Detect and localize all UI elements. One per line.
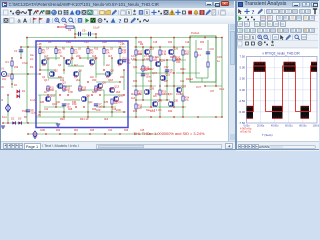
label R1 bbox=[6, 60, 10, 64]
label R24 bbox=[185, 97, 190, 102]
wire vert V13 bbox=[103, 47, 105, 66]
label R21 bbox=[185, 51, 190, 56]
svg-text:Q34: Q34 bbox=[168, 94, 173, 96]
transient bottom bar bbox=[236, 141, 319, 151]
label R10 bbox=[122, 50, 127, 55]
svg-text:R18: R18 bbox=[46, 89, 51, 91]
svg-text:C20: C20 bbox=[148, 81, 153, 83]
toolbar row 1 bbox=[1, 8, 234, 17]
svg-text:1u: 1u bbox=[217, 59, 220, 63]
svg-text:C18: C18 bbox=[153, 42, 158, 44]
svg-text:+35: +35 bbox=[37, 42, 42, 46]
label R7 bbox=[74, 50, 79, 55]
ground GND1 bbox=[56, 124, 60, 126]
svg-text:Q21: Q21 bbox=[56, 102, 61, 104]
svg-text:Q6: Q6 bbox=[86, 93, 90, 97]
resistor R18 bbox=[150, 56, 152, 61]
wire bottom rail VEE bbox=[36, 116, 222, 118]
label R14v bbox=[198, 54, 202, 57]
ground GND3 bbox=[33, 136, 37, 138]
wire vert V11 bbox=[87, 95, 89, 117]
wire horz H15 bbox=[38, 111, 126, 113]
svg-text:40.00u: 40.00u bbox=[271, 124, 279, 127]
svg-text:C12: C12 bbox=[94, 89, 99, 91]
resistor R2 bbox=[11, 74, 13, 79]
svg-text:D4: D4 bbox=[14, 85, 18, 87]
svg-text:Q28: Q28 bbox=[149, 86, 154, 90]
svg-text:Q10: Q10 bbox=[118, 93, 123, 97]
label Q28 bbox=[149, 86, 154, 90]
capacitor C1 bbox=[19, 50, 23, 52]
svg-text:C8: C8 bbox=[110, 49, 114, 51]
svg-text:4k7: 4k7 bbox=[131, 92, 136, 96]
wire vert VR1 bbox=[135, 37, 137, 117]
diode D2 bbox=[12, 121, 15, 124]
resistor R12 bbox=[63, 86, 65, 91]
toolbar row 2 bbox=[1, 16, 234, 25]
wire vert V3 bbox=[47, 58, 49, 78]
resistor R3 (selected) bbox=[66, 26, 74, 28]
svg-text:T (Secs): T (Secs) bbox=[262, 133, 273, 137]
label Q8 bbox=[102, 80, 106, 84]
wire vert V1 bbox=[39, 47, 41, 70]
resistor R1 bbox=[11, 61, 13, 66]
wire vert VR4 bbox=[159, 47, 161, 117]
svg-text:2k0: 2k0 bbox=[116, 90, 121, 94]
svg-text:Q12: Q12 bbox=[50, 93, 55, 97]
svg-text:7.50: 7.50 bbox=[240, 55, 246, 59]
label D2 D3 bbox=[11, 117, 22, 121]
svg-text:R44: R44 bbox=[56, 130, 61, 132]
wire horz H13 bbox=[44, 106, 64, 108]
ringing speckle bbox=[247, 63, 316, 117]
wire red selected bbox=[58, 26, 66, 28]
wire vert V9 bbox=[79, 70, 81, 90]
capacitor C7 bbox=[94, 104, 98, 106]
wire vert V16 bbox=[111, 104, 113, 117]
wire horz H14 bbox=[96, 106, 116, 108]
label Q3 bbox=[62, 80, 66, 84]
svg-text:R46: R46 bbox=[124, 130, 129, 132]
svg-text:100.00u: 100.00u bbox=[313, 124, 319, 127]
svg-text:C16: C16 bbox=[217, 55, 222, 59]
wire left loop edge bbox=[26, 38, 28, 124]
transistor Q6 bbox=[81, 96, 86, 101]
label Q2 bbox=[54, 68, 58, 72]
svg-text:?: ? bbox=[118, 18, 121, 23]
wire horz HR4 bbox=[176, 72, 200, 74]
svg-text:2k2: 2k2 bbox=[106, 65, 110, 67]
capacitor C3 bbox=[122, 60, 126, 62]
svg-text:R36: R36 bbox=[133, 81, 138, 83]
wire R1 branch bbox=[11, 58, 13, 88]
capacitor C15 bbox=[206, 52, 210, 54]
label Q26 bbox=[173, 46, 178, 50]
label Q30 bbox=[173, 98, 178, 102]
transistor Q29 bbox=[152, 101, 157, 106]
svg-text:Q9: Q9 bbox=[110, 68, 114, 72]
label C6 bbox=[31, 110, 37, 115]
label R20 bbox=[176, 57, 181, 62]
svg-text:R14: R14 bbox=[198, 48, 203, 51]
svg-text:1n0: 1n0 bbox=[155, 57, 160, 59]
svg-text:R41 10: R41 10 bbox=[80, 117, 89, 121]
junction top branch bbox=[57, 26, 96, 38]
resistor R7 bbox=[71, 49, 73, 54]
capacitor C9 bbox=[79, 32, 81, 36]
wire vert VR7 bbox=[182, 47, 184, 117]
svg-text:22R: 22R bbox=[116, 108, 121, 112]
component value labels bbox=[1, 31, 224, 121]
svg-text:Q34: Q34 bbox=[152, 71, 157, 75]
wire vert VR5 bbox=[166, 60, 168, 100]
label R23 bbox=[162, 91, 167, 96]
resistor R16 bbox=[111, 99, 113, 104]
svg-text:120: 120 bbox=[138, 108, 143, 110]
svg-text:D3: D3 bbox=[18, 117, 22, 121]
label Q5 bbox=[78, 68, 82, 72]
svg-text:0.1uF: 0.1uF bbox=[93, 26, 100, 30]
svg-text:D2: D2 bbox=[11, 117, 15, 121]
label R12 bbox=[66, 87, 71, 92]
svg-text:Q5: Q5 bbox=[78, 68, 82, 72]
svg-text:C21: C21 bbox=[180, 81, 185, 83]
transistor Q24 bbox=[155, 61, 160, 66]
svg-text:1R0: 1R0 bbox=[153, 60, 158, 62]
svg-text:47uF: 47uF bbox=[22, 61, 28, 65]
wire horz H1 bbox=[44, 57, 60, 59]
svg-text:1.00: 1.00 bbox=[144, 57, 150, 61]
resistor R5 bbox=[39, 49, 41, 54]
label Q13 bbox=[114, 84, 119, 88]
svg-text:Q22: Q22 bbox=[88, 102, 93, 104]
transient toolbars bbox=[236, 8, 318, 50]
svg-text:Q3: Q3 bbox=[58, 65, 62, 67]
wire vert V6 bbox=[63, 58, 65, 74]
svg-text:R1: R1 bbox=[6, 60, 10, 64]
label R26 bbox=[145, 67, 150, 72]
svg-text:3k3: 3k3 bbox=[104, 117, 109, 121]
plot title bbox=[262, 52, 300, 56]
extra value labels bbox=[2, 42, 215, 132]
label R8 bbox=[90, 50, 94, 55]
transistor Q26 bbox=[168, 49, 173, 54]
svg-text:R28: R28 bbox=[68, 109, 73, 111]
svg-text:R40: R40 bbox=[168, 111, 173, 113]
transistor Q4 bbox=[65, 59, 70, 64]
svg-text:1mA: 1mA bbox=[30, 98, 36, 102]
svg-text:4u7: 4u7 bbox=[44, 54, 49, 58]
wire horz HR1 bbox=[132, 59, 150, 61]
wire I1 bbox=[7, 95, 9, 123]
svg-text:20.00u: 20.00u bbox=[257, 124, 265, 127]
svg-text:a: a bbox=[17, 18, 21, 23]
transistor Q8 bbox=[97, 83, 102, 88]
wire out stub bbox=[205, 37, 222, 86]
svg-text:IN1: IN1 bbox=[30, 67, 34, 69]
svg-text:0.22: 0.22 bbox=[162, 54, 167, 56]
svg-text:Q7: Q7 bbox=[118, 65, 122, 67]
label R22 bbox=[138, 91, 143, 96]
selection box bbox=[36, 41, 128, 128]
wire top branch bbox=[75, 27, 97, 38]
label C1 bbox=[14, 49, 18, 53]
current source I2 bbox=[33, 131, 37, 137]
svg-text:5.00: 5.00 bbox=[240, 66, 246, 70]
resistor R11 bbox=[47, 86, 49, 91]
label C8 bbox=[67, 104, 72, 109]
capacitor C4 bbox=[141, 74, 145, 76]
junction dots mid bbox=[39, 57, 124, 107]
label Q25 bbox=[165, 72, 170, 76]
capacitor C10 bbox=[89, 32, 91, 36]
svg-text:C19: C19 bbox=[185, 42, 190, 44]
wire horz HR3 bbox=[136, 72, 168, 74]
svg-text:THL THD = 1.000000% and SID =: THL THD = 1.000000% and SID = 3.24% bbox=[134, 131, 205, 136]
plot frame bbox=[247, 57, 318, 124]
junction dots left bbox=[2, 57, 150, 134]
junction dots bottom bbox=[39, 111, 222, 117]
label R16 bbox=[114, 100, 119, 105]
transistor Q9 bbox=[105, 71, 110, 76]
label Q7 bbox=[94, 56, 98, 60]
svg-text:0.1: 0.1 bbox=[198, 54, 202, 57]
wire vert V4 bbox=[55, 47, 57, 60]
svg-text:220u: 220u bbox=[150, 111, 156, 113]
label C7 bbox=[99, 104, 104, 109]
label Q9 bbox=[110, 68, 114, 72]
svg-text:C15: C15 bbox=[210, 48, 215, 51]
svg-text:0.00: 0.00 bbox=[240, 88, 246, 92]
wire vert V17 bbox=[119, 47, 121, 64]
resistor R10 bbox=[119, 49, 121, 54]
wire horz H9 bbox=[80, 89, 104, 91]
wire vert VR6 bbox=[173, 37, 175, 107]
wire horz H8 bbox=[56, 85, 72, 87]
svg-text:4k7: 4k7 bbox=[108, 54, 113, 58]
wire top rail VCC bbox=[26, 37, 222, 39]
main title bar bbox=[0, 0, 234, 9]
label Q10 bbox=[118, 93, 123, 97]
capacitor C8 bbox=[62, 104, 66, 106]
label R17 bbox=[138, 51, 143, 56]
transistor Q28 bbox=[144, 89, 149, 94]
wire horz HR5 bbox=[132, 85, 156, 87]
label R6 bbox=[58, 50, 62, 55]
resistor R14 bbox=[195, 52, 197, 57]
svg-text:1.84: 1.84 bbox=[131, 57, 137, 61]
transistor Q27 bbox=[176, 87, 181, 92]
svg-text:0R1: 0R1 bbox=[74, 130, 79, 132]
svg-text:33R: 33R bbox=[72, 102, 77, 104]
label R18 bbox=[153, 57, 158, 62]
wire horz H5 bbox=[96, 73, 112, 75]
svg-text:R31: R31 bbox=[138, 42, 143, 44]
wire horz HR2 bbox=[160, 59, 186, 61]
label R5 bbox=[42, 50, 46, 55]
wire x21 bbox=[20, 47, 22, 58]
wire left low rail bbox=[3, 122, 58, 124]
svg-text:C14: C14 bbox=[44, 109, 49, 111]
capacitor C6 bbox=[26, 110, 30, 112]
transistor Q5 bbox=[73, 71, 78, 76]
svg-text:-2.50: -2.50 bbox=[239, 99, 246, 103]
label C5 bbox=[170, 70, 175, 75]
resistor R22 bbox=[135, 90, 137, 95]
svg-text:0.1: 0.1 bbox=[30, 57, 34, 61]
svg-text:0R22: 0R22 bbox=[180, 69, 186, 71]
svg-text:80.00u: 80.00u bbox=[299, 124, 307, 127]
resistor R13 bbox=[79, 86, 81, 91]
wire horz H3 bbox=[68, 65, 84, 67]
svg-text:Q24: Q24 bbox=[160, 58, 165, 62]
resistor R20 bbox=[173, 56, 175, 61]
svg-text:Q5: Q5 bbox=[90, 65, 94, 67]
svg-text:R29: R29 bbox=[92, 109, 97, 111]
svg-text:IN: IN bbox=[1, 85, 4, 89]
wire X1 link bbox=[196, 78, 208, 82]
wire X1 internal 1 bbox=[195, 40, 197, 78]
wire input bbox=[5, 73, 40, 75]
svg-text:MJ15: MJ15 bbox=[170, 57, 176, 59]
wire horz H4 bbox=[40, 69, 56, 71]
wire horz HR7 bbox=[136, 99, 170, 101]
svg-text:Q13: Q13 bbox=[114, 84, 119, 88]
x axis title bbox=[262, 133, 273, 137]
wire vert V8 bbox=[71, 47, 73, 66]
ground GND2 bbox=[1, 126, 5, 128]
label C15 bbox=[210, 48, 215, 51]
label R14 bbox=[198, 48, 203, 51]
svg-text:10u: 10u bbox=[30, 55, 35, 57]
svg-text:R40: R40 bbox=[60, 117, 65, 121]
transistor Q7 bbox=[89, 59, 94, 64]
svg-text:R20: R20 bbox=[110, 89, 115, 91]
junction dots rail A bbox=[20, 46, 183, 47]
x axis labels bbox=[244, 124, 320, 127]
junction dots top rail bbox=[26, 37, 222, 38]
transistor Q23 bbox=[144, 49, 149, 54]
label I1 bbox=[1, 98, 4, 102]
schematic area bbox=[1, 24, 228, 141]
label R15 bbox=[98, 87, 103, 92]
wire vert V7 bbox=[63, 104, 65, 117]
svg-text:Q23: Q23 bbox=[118, 102, 123, 104]
svg-text:C1: C1 bbox=[68, 28, 72, 32]
label C10 bbox=[82, 26, 100, 33]
svg-text:Q8: Q8 bbox=[102, 80, 106, 84]
svg-text:47k: 47k bbox=[6, 74, 11, 78]
transistor Q30 bbox=[168, 101, 173, 106]
label D1 bbox=[22, 89, 26, 93]
transistor Q1 bbox=[41, 59, 46, 64]
svg-text:10R: 10R bbox=[138, 54, 143, 56]
svg-text:Probe1: Probe1 bbox=[191, 31, 200, 35]
label Q23 bbox=[149, 46, 154, 50]
svg-text:Q30: Q30 bbox=[173, 98, 178, 102]
transistor Q3 bbox=[57, 83, 62, 88]
wire vert V10 bbox=[87, 47, 89, 60]
resistor R27 bbox=[207, 62, 209, 67]
svg-text:C4: C4 bbox=[46, 49, 50, 51]
svg-text:220: 220 bbox=[76, 54, 81, 58]
wire vert V2 bbox=[39, 95, 41, 117]
svg-text:I1: I1 bbox=[1, 98, 4, 102]
svg-text:47R: 47R bbox=[68, 90, 73, 94]
label R19 bbox=[162, 51, 167, 56]
svg-text:100: 100 bbox=[96, 108, 101, 112]
square wave trace v(Out) bbox=[247, 66, 318, 111]
transistor Q10 bbox=[113, 96, 118, 101]
diode D3 bbox=[18, 121, 21, 124]
svg-text:R33: R33 bbox=[200, 42, 205, 44]
svg-text:R37: R37 bbox=[164, 81, 169, 83]
resistor R6 bbox=[55, 49, 57, 54]
svg-text:C27: C27 bbox=[210, 91, 215, 93]
label Q4 bbox=[70, 56, 74, 60]
label R9 bbox=[106, 50, 111, 55]
wire vert V5 bbox=[55, 90, 57, 107]
label C4 bbox=[146, 74, 152, 79]
resistor R15 bbox=[95, 86, 97, 91]
svg-text:GND: GND bbox=[40, 130, 45, 132]
svg-text:1k5: 1k5 bbox=[153, 96, 157, 98]
label Q24 bbox=[160, 58, 165, 62]
label R13 bbox=[82, 87, 87, 92]
svg-text:1k5: 1k5 bbox=[92, 54, 97, 58]
wire right rail bbox=[221, 38, 223, 118]
svg-text:340: 340 bbox=[176, 60, 181, 64]
svg-text:47R: 47R bbox=[122, 52, 127, 54]
wire horz H10 bbox=[38, 94, 56, 96]
capacitor C5 bbox=[165, 70, 169, 72]
resistor R21 bbox=[182, 50, 184, 55]
svg-text:47R: 47R bbox=[104, 102, 109, 104]
wire vert V14 bbox=[103, 90, 105, 107]
svg-text:Vout: Vout bbox=[219, 87, 224, 91]
svg-text:R32: R32 bbox=[168, 42, 173, 44]
subcircuit box X1 bbox=[190, 36, 216, 82]
svg-text:68R: 68R bbox=[50, 90, 55, 92]
transistor Q13 bbox=[109, 87, 114, 92]
resistor R8 bbox=[87, 49, 89, 54]
bottom tab bar bbox=[1, 141, 235, 150]
transistor Q25 bbox=[160, 75, 165, 80]
led D1 bbox=[17, 90, 20, 99]
svg-text:R45: R45 bbox=[90, 130, 95, 132]
svg-text:6mA: 6mA bbox=[2, 116, 7, 119]
svg-text:v RTVQ2_neulo_THD.CIR: v RTVQ2_neulo_THD.CIR bbox=[262, 52, 300, 56]
svg-text:Rload: Rload bbox=[186, 77, 193, 81]
label Q6 bbox=[86, 93, 90, 97]
label V1 bbox=[1, 67, 5, 71]
transient title bar bbox=[236, 0, 318, 9]
svg-text:22k: 22k bbox=[14, 65, 19, 69]
junction dots right bbox=[135, 59, 216, 107]
wire horz H6 bbox=[48, 77, 64, 79]
svg-text:47k: 47k bbox=[185, 100, 190, 102]
svg-text:R10: R10 bbox=[94, 49, 99, 51]
svg-text:C16: C16 bbox=[112, 109, 117, 111]
label THD result bbox=[134, 131, 205, 136]
resistor R19 bbox=[159, 50, 161, 55]
wire X1 internal 2 bbox=[207, 40, 209, 78]
svg-text:R39: R39 bbox=[133, 111, 138, 113]
svg-text:1k: 1k bbox=[60, 54, 63, 58]
wire vert V12 bbox=[95, 58, 97, 78]
svg-text:Q31: Q31 bbox=[133, 67, 138, 69]
trace legend bbox=[240, 128, 252, 134]
